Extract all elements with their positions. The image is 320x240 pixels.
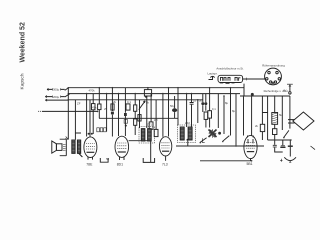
svg-text:8D1: 8D1 xyxy=(117,162,123,166)
svg-text:300μ: 300μ xyxy=(53,88,60,92)
label tube V1 designator xyxy=(86,162,93,166)
capacitor C1 blob xyxy=(111,88,113,111)
corner tick xyxy=(311,146,316,150)
tube V2 xyxy=(115,136,129,160)
wire vertical x=251.6 tube4 top xyxy=(251,96,253,136)
svg-text:47k: 47k xyxy=(92,105,97,109)
stub2 label gap ticks xyxy=(53,95,61,97)
junction blob left of tube1 xyxy=(79,153,83,157)
capacitor C7 xyxy=(274,140,276,145)
svg-text:200μ: 200μ xyxy=(53,95,60,99)
hatched resistor R14 xyxy=(272,113,278,125)
svg-text:50: 50 xyxy=(199,98,203,102)
wire vertical x=162.9 xyxy=(162,94,164,137)
svg-text:78E: 78E xyxy=(86,162,93,166)
resistor R3 xyxy=(111,100,113,104)
wire vertical x=267.6 xyxy=(267,96,269,113)
wire vertical x=86.6 xyxy=(86,94,88,137)
svg-text:Reihenfolge v. oben: Reihenfolge v. oben xyxy=(264,89,289,93)
electrolytic blob C3 xyxy=(174,96,176,108)
IFT2 bottom junction xyxy=(187,139,189,141)
IF transformer T_if1 xyxy=(139,127,154,143)
small tick right of V4 xyxy=(280,159,282,162)
wire vertical x=168.5 xyxy=(168,88,170,137)
wire bus rail C y=99.8 xyxy=(68,99,203,101)
svg-text:ZF: ZF xyxy=(77,102,81,106)
frame antenna diamond xyxy=(293,112,314,130)
input stub 3 xyxy=(45,99,68,101)
switch S1 slash xyxy=(65,87,69,90)
IF transformer T_if2 xyxy=(177,125,195,142)
label Lautsprecher xyxy=(208,71,218,75)
label 470k xyxy=(89,89,96,93)
label tube V3 designator xyxy=(162,162,168,166)
misc labels xyxy=(77,98,283,160)
wire vertical x=282.3 xyxy=(281,96,283,130)
tuning box B1 xyxy=(147,88,149,90)
svg-text:ZF1: ZF1 xyxy=(147,123,152,127)
svg-text:50μ: 50μ xyxy=(170,104,175,108)
svg-text:470k: 470k xyxy=(89,89,96,93)
resistor R13 xyxy=(260,124,264,131)
capacitor C4 plates xyxy=(191,94,193,102)
wire bottom rail y=160.8 xyxy=(200,160,252,162)
wire bus rail A y=87.7 xyxy=(68,87,245,89)
resistor R1 xyxy=(92,94,94,104)
tube V3 xyxy=(159,137,171,161)
wire to arc xyxy=(289,140,291,157)
V1 top lead dots xyxy=(88,133,90,135)
resistor R7 xyxy=(134,119,137,125)
resistor R6 xyxy=(138,115,141,121)
wire riser to connector xyxy=(243,84,245,96)
svg-text:7L3: 7L3 xyxy=(162,162,168,166)
label 47k xyxy=(92,105,97,109)
wire bus rail F above tubes y=118.3 xyxy=(99,117,178,119)
junction dot xyxy=(251,93,254,96)
svg-text:Röhrenanordnung: Röhrenanordnung xyxy=(262,64,285,68)
wire vertical x=74.5 xyxy=(75,100,81,140)
wire vertical x=178 xyxy=(177,88,179,125)
wire vertical x=258.9 xyxy=(261,96,263,124)
diamond feed wires xyxy=(288,120,295,123)
svg-text:8μ: 8μ xyxy=(232,109,236,113)
svg-text:8μ: 8μ xyxy=(225,101,229,105)
capacitor C2 blob xyxy=(124,88,126,113)
small box under C2 xyxy=(124,120,127,124)
resistor R10 xyxy=(155,100,157,130)
switch slash S4 xyxy=(223,136,230,142)
input stub 4 dotted start xyxy=(38,110,41,112)
wire bottom rail y=146 xyxy=(176,145,264,147)
bottom arc xyxy=(284,157,296,160)
antenna input stub 1 xyxy=(47,88,65,90)
resistor R5 xyxy=(134,94,136,105)
resistor R15 xyxy=(273,129,277,135)
svg-text:25: 25 xyxy=(104,107,108,111)
tube socket circle xyxy=(265,68,282,85)
output transformer windings xyxy=(72,140,81,153)
output transformer X blob xyxy=(202,129,221,142)
loudspeaker xyxy=(52,139,67,156)
title text Kapsch Weekend 52 xyxy=(20,22,27,89)
electrolytic dots C5 C6 xyxy=(202,94,204,102)
contact bank row xyxy=(97,128,106,132)
label tube V4 designator xyxy=(247,162,253,166)
wire bus rail E y=111.4 xyxy=(42,110,98,112)
junction dots xyxy=(68,87,292,162)
resistor R2 xyxy=(98,88,100,104)
wire vertical x=197.8 xyxy=(197,100,199,123)
svg-text:50: 50 xyxy=(106,157,110,161)
svg-text:Weekend 52: Weekend 52 xyxy=(20,22,27,62)
wire vertical x=230.5 xyxy=(230,88,232,136)
svg-text:ZF2: ZF2 xyxy=(185,121,190,125)
tube V4 rectifier xyxy=(244,135,257,160)
wire vertical x=186.6 xyxy=(186,94,188,127)
resistor R11 xyxy=(204,112,208,119)
label 50 xyxy=(170,104,175,108)
wire vertical x=289.9 xyxy=(289,96,291,129)
svg-text:Kapsch: Kapsch xyxy=(20,73,26,89)
wire vertical x=218.3 xyxy=(217,94,219,128)
wire rail y=140 right xyxy=(268,139,292,141)
heater hook under V2 xyxy=(100,158,108,162)
switch slash S5 xyxy=(284,130,289,137)
svg-text:Anschlußschnur m.St.: Anschlußschnur m.St. xyxy=(216,66,244,70)
tube V1 xyxy=(84,137,97,160)
svg-text:0,1: 0,1 xyxy=(127,100,131,104)
resistor R4 xyxy=(126,104,130,110)
svg-text:25: 25 xyxy=(193,98,197,102)
wire V2 to IFT1 bottom xyxy=(129,141,151,163)
wire vertical x=118.5 xyxy=(118,94,120,136)
label 200 xyxy=(53,95,60,99)
capacitor C8 dark xyxy=(282,140,284,145)
switch S2 slash xyxy=(65,94,70,97)
variable cap slash xyxy=(139,101,145,110)
wire vertical x=243.5 xyxy=(243,96,245,136)
switch slash S3 xyxy=(200,138,206,143)
antenna input stub 2 xyxy=(45,96,64,98)
wire bus rail D right section y=96 xyxy=(240,95,290,97)
svg-text:1M: 1M xyxy=(154,118,159,122)
svg-text:Lautspr.: Lautspr. xyxy=(208,71,218,75)
wire vertical x=236 xyxy=(235,94,237,146)
resistor R12 xyxy=(209,88,211,111)
stub1 label gap ticks xyxy=(53,88,61,90)
connector strip xyxy=(218,75,265,83)
label tube V2 designator xyxy=(117,162,123,166)
svg-text:5B1: 5B1 xyxy=(247,162,253,166)
label 300 xyxy=(53,88,60,92)
voltage arrow with circle xyxy=(289,85,291,92)
wire vertical x=90 xyxy=(89,100,91,137)
label 25p xyxy=(193,98,197,102)
wire bus rail B y=93.6 xyxy=(68,93,240,95)
label Reihenfolge xyxy=(264,89,289,93)
svg-text:0,1: 0,1 xyxy=(212,107,216,111)
heater hook under V3 xyxy=(143,158,154,162)
arrow tick on wire 68.3 xyxy=(65,137,68,140)
wire vertical x=68.3 xyxy=(67,88,69,140)
wire vertical x=224 xyxy=(223,96,225,134)
plug symbol xyxy=(209,76,215,80)
label Roehrenanordnung xyxy=(262,64,285,68)
label Anschlussschnur xyxy=(216,66,244,70)
wire vertical x=106.6 xyxy=(106,94,108,132)
resistor R9 xyxy=(150,94,152,122)
